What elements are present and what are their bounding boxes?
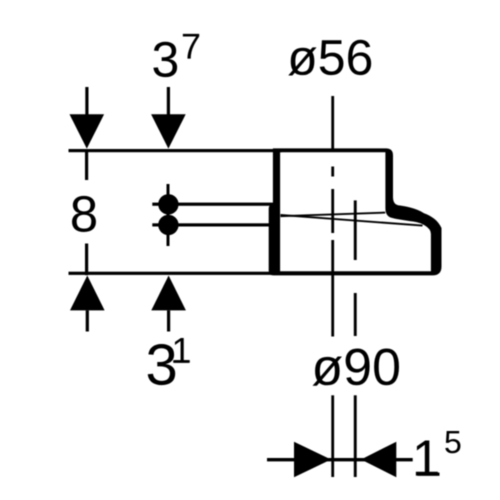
label 3 superscript 7 — [153, 42, 177, 77]
inner cone line upper — [281, 213, 386, 217]
label o90 — [313, 348, 399, 385]
fitting body outer contour — [269, 148, 442, 275]
dimension 8: line below top edge — [85, 152, 88, 181]
dimension 8: down arrow left — [70, 114, 105, 148]
tapping point vertical line — [167, 184, 170, 246]
label 8 — [72, 196, 96, 232]
label o56 — [288, 40, 371, 76]
dimension 3-7: down arrow — [151, 114, 186, 148]
centre line long segment through bottom wall — [331, 240, 334, 337]
dimension 8: line above bottom edge — [85, 244, 88, 276]
tapping point lower leader line — [152, 223, 273, 226]
fitting body inner bore (white) — [280, 152, 431, 271]
dimension 8: lower stub below left arrow — [86, 310, 89, 331]
socket axis extension below o90 label — [354, 395, 357, 477]
socket axis line segment 1 — [354, 200, 357, 260]
centre line extension below o90 label — [331, 395, 334, 477]
label 1 superscript 5 — [416, 441, 438, 476]
centre line dash 2 inside body — [331, 189, 334, 233]
bottom dimension line — [69, 272, 282, 275]
dimension 8: upper stub above left arrow — [85, 87, 88, 115]
dimension 8: up arrow left — [70, 276, 105, 311]
superscript 1 foot bar — [173, 360, 189, 363]
dimension 1-5: left-pointing arrow — [361, 442, 396, 478]
top dimension line — [69, 149, 282, 152]
socket axis line segment 2 — [354, 293, 357, 336]
upper centre line of spigot (o56 axis) — [331, 96, 334, 151]
numeral 1 foot bar — [418, 473, 440, 476]
dimension 3-7: stub above right arrow — [167, 87, 170, 115]
tapping point dot lower — [158, 215, 178, 235]
dimension 1-5 line — [267, 458, 413, 461]
centre line dash 1 inside body — [331, 167, 334, 177]
dimension 3-1: stub below arrow — [167, 310, 170, 331]
dimension 3-1: up arrow — [151, 276, 186, 311]
inner cone line lower — [281, 215, 423, 226]
label 3 superscript 1 — [148, 344, 176, 385]
tapping point upper leader line — [152, 203, 273, 206]
dimension 1-5: right-pointing arrow — [294, 442, 331, 478]
tapping point dot upper — [158, 194, 178, 214]
